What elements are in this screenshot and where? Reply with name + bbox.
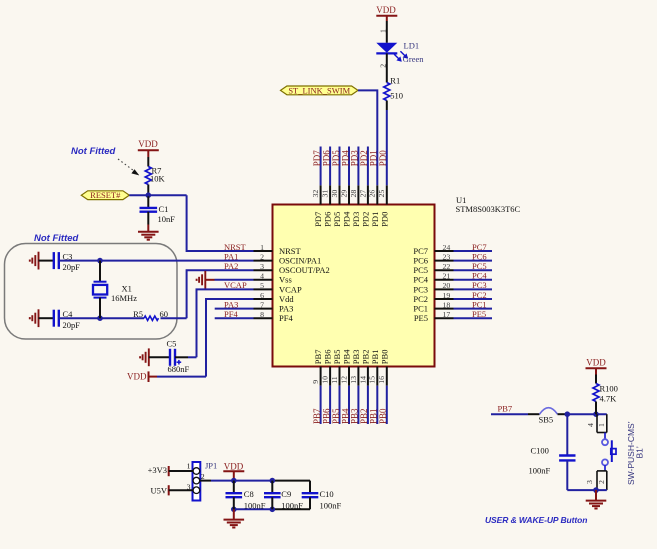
svg-text:100nF: 100nF [320,501,342,511]
svg-text:R1: R1 [390,75,400,85]
svg-text:PB3: PB3 [350,408,360,424]
svg-text:29: 29 [339,190,348,198]
svg-text:26: 26 [368,190,377,198]
svg-text:ST_LINK_SWIM: ST_LINK_SWIM [288,85,350,95]
svg-text:PB7: PB7 [313,350,323,365]
svg-text:18: 18 [443,300,451,309]
svg-text:PC3: PC3 [472,280,487,290]
svg-text:7: 7 [260,300,264,309]
svg-text:PC2: PC2 [472,290,487,300]
svg-text:RESET#: RESET# [90,190,121,200]
svg-text:Vdd: Vdd [279,294,294,304]
svg-text:32: 32 [311,190,320,198]
svg-text:28: 28 [349,190,358,198]
svg-text:X1: X1 [122,283,132,293]
svg-text:PB5: PB5 [331,408,341,424]
svg-text:C5: C5 [167,338,177,348]
svg-text:OSCOUT/PA2: OSCOUT/PA2 [279,265,330,275]
svg-text:PD5: PD5 [331,150,341,167]
svg-text:20pF: 20pF [63,262,81,272]
svg-text:2: 2 [260,252,264,261]
svg-text:4: 4 [260,272,264,281]
svg-text:510: 510 [390,90,403,100]
svg-text:27: 27 [358,190,367,198]
svg-text:8: 8 [260,310,264,319]
svg-text:PC7: PC7 [413,246,428,256]
svg-text:PB3: PB3 [351,350,361,365]
svg-text:19: 19 [443,291,451,300]
svg-text:PC3: PC3 [413,284,428,294]
svg-text:1: 1 [378,29,387,33]
svg-text:20pF: 20pF [63,320,81,330]
svg-text:PA3: PA3 [279,304,293,314]
svg-text:2: 2 [201,472,205,481]
svg-text:JP1: JP1 [205,461,217,471]
svg-text:15: 15 [368,376,377,384]
svg-text:100nF: 100nF [529,465,551,475]
svg-text:STM8S003K3T6C: STM8S003K3T6C [456,204,521,214]
svg-text:USER & WAKE-UP Button: USER & WAKE-UP Button [485,515,587,525]
svg-text:VDD: VDD [224,462,244,472]
svg-text:6: 6 [260,291,264,300]
svg-text:PB1: PB1 [369,408,379,424]
svg-text:PB1: PB1 [370,350,380,365]
svg-text:Not Fitted: Not Fitted [34,233,79,244]
svg-text:16MHz: 16MHz [111,293,137,303]
svg-text:VDD: VDD [586,358,606,368]
svg-text:VDD: VDD [127,371,147,381]
svg-text:VDD: VDD [376,5,396,15]
svg-text:24: 24 [443,243,451,252]
svg-text:30: 30 [330,190,339,198]
svg-text:680nF: 680nF [168,364,190,374]
svg-text:PB7: PB7 [312,408,322,424]
svg-text:3: 3 [260,262,264,271]
svg-text:C100: C100 [531,445,549,455]
svg-text:PD3: PD3 [351,212,361,227]
svg-text:PC7: PC7 [472,242,487,252]
svg-text:C1: C1 [159,204,169,214]
svg-text:3: 3 [585,480,594,484]
svg-text:B1’: B1’ [634,446,644,458]
svg-text:PD3: PD3 [350,150,360,167]
svg-text:10: 10 [321,376,330,384]
svg-text:1: 1 [597,423,606,427]
svg-text:+3V3: +3V3 [148,465,167,475]
svg-text:C9: C9 [281,489,291,499]
svg-text:25: 25 [377,190,386,198]
svg-text:Vss: Vss [279,275,292,285]
svg-text:100nF: 100nF [281,501,303,511]
svg-text:4.7K: 4.7K [600,394,618,404]
svg-text:10K: 10K [150,173,166,183]
svg-text:VCAP: VCAP [279,284,302,294]
svg-text:14: 14 [358,376,367,384]
svg-text:1: 1 [187,462,191,471]
svg-text:16: 16 [377,376,386,384]
svg-text:NRST: NRST [279,246,302,256]
svg-text:PD1: PD1 [370,212,380,227]
svg-text:LD1: LD1 [404,40,420,50]
svg-text:2: 2 [597,480,606,484]
svg-text:PD7: PD7 [312,150,322,167]
svg-text:R5: R5 [133,309,143,319]
svg-text:PB5: PB5 [332,350,342,365]
svg-text:12: 12 [339,376,348,384]
svg-text:PD0: PD0 [379,212,389,227]
svg-text:10nF: 10nF [158,214,176,224]
svg-text:21: 21 [443,272,451,281]
svg-text:100nF: 100nF [244,501,266,511]
svg-text:Green: Green [403,54,425,64]
svg-text:4: 4 [586,423,595,427]
svg-text:Not Fitted: Not Fitted [71,146,116,157]
svg-text:C8: C8 [244,489,254,499]
svg-text:PB0: PB0 [378,408,388,424]
svg-text:1: 1 [260,243,264,252]
svg-text:SB5: SB5 [539,415,554,425]
svg-text:VDD: VDD [138,139,158,149]
svg-text:17: 17 [443,310,451,319]
svg-text:PC1: PC1 [413,304,428,314]
svg-text:PD7: PD7 [313,212,323,227]
svg-text:PC5: PC5 [413,265,428,275]
svg-text:PE5: PE5 [472,309,486,319]
svg-text:PC4: PC4 [413,275,428,285]
svg-text:PC6: PC6 [413,256,428,266]
svg-text:PB7: PB7 [498,404,513,414]
svg-text:PC5: PC5 [472,261,487,271]
svg-text:20: 20 [443,281,451,290]
svg-text:13: 13 [349,376,358,384]
svg-text:PC2: PC2 [413,294,428,304]
svg-text:PC4: PC4 [472,271,487,281]
svg-text:R100: R100 [600,383,618,393]
svg-text:U5V: U5V [150,485,167,495]
svg-text:9: 9 [311,380,320,384]
svg-text:OSCIN/PA1: OSCIN/PA1 [279,256,321,266]
svg-text:PC6: PC6 [472,251,487,261]
svg-text:31: 31 [321,190,330,198]
svg-text:23: 23 [443,252,451,261]
svg-text:11: 11 [330,376,339,384]
svg-text:5: 5 [260,281,264,290]
svg-text:22: 22 [443,262,451,271]
svg-text:PB0: PB0 [379,350,389,365]
svg-text:PF4: PF4 [279,313,293,323]
svg-text:PE5: PE5 [414,313,428,323]
svg-text:PD5: PD5 [332,212,342,227]
svg-text:PC1: PC1 [472,299,487,309]
svg-text:C10: C10 [320,489,334,499]
